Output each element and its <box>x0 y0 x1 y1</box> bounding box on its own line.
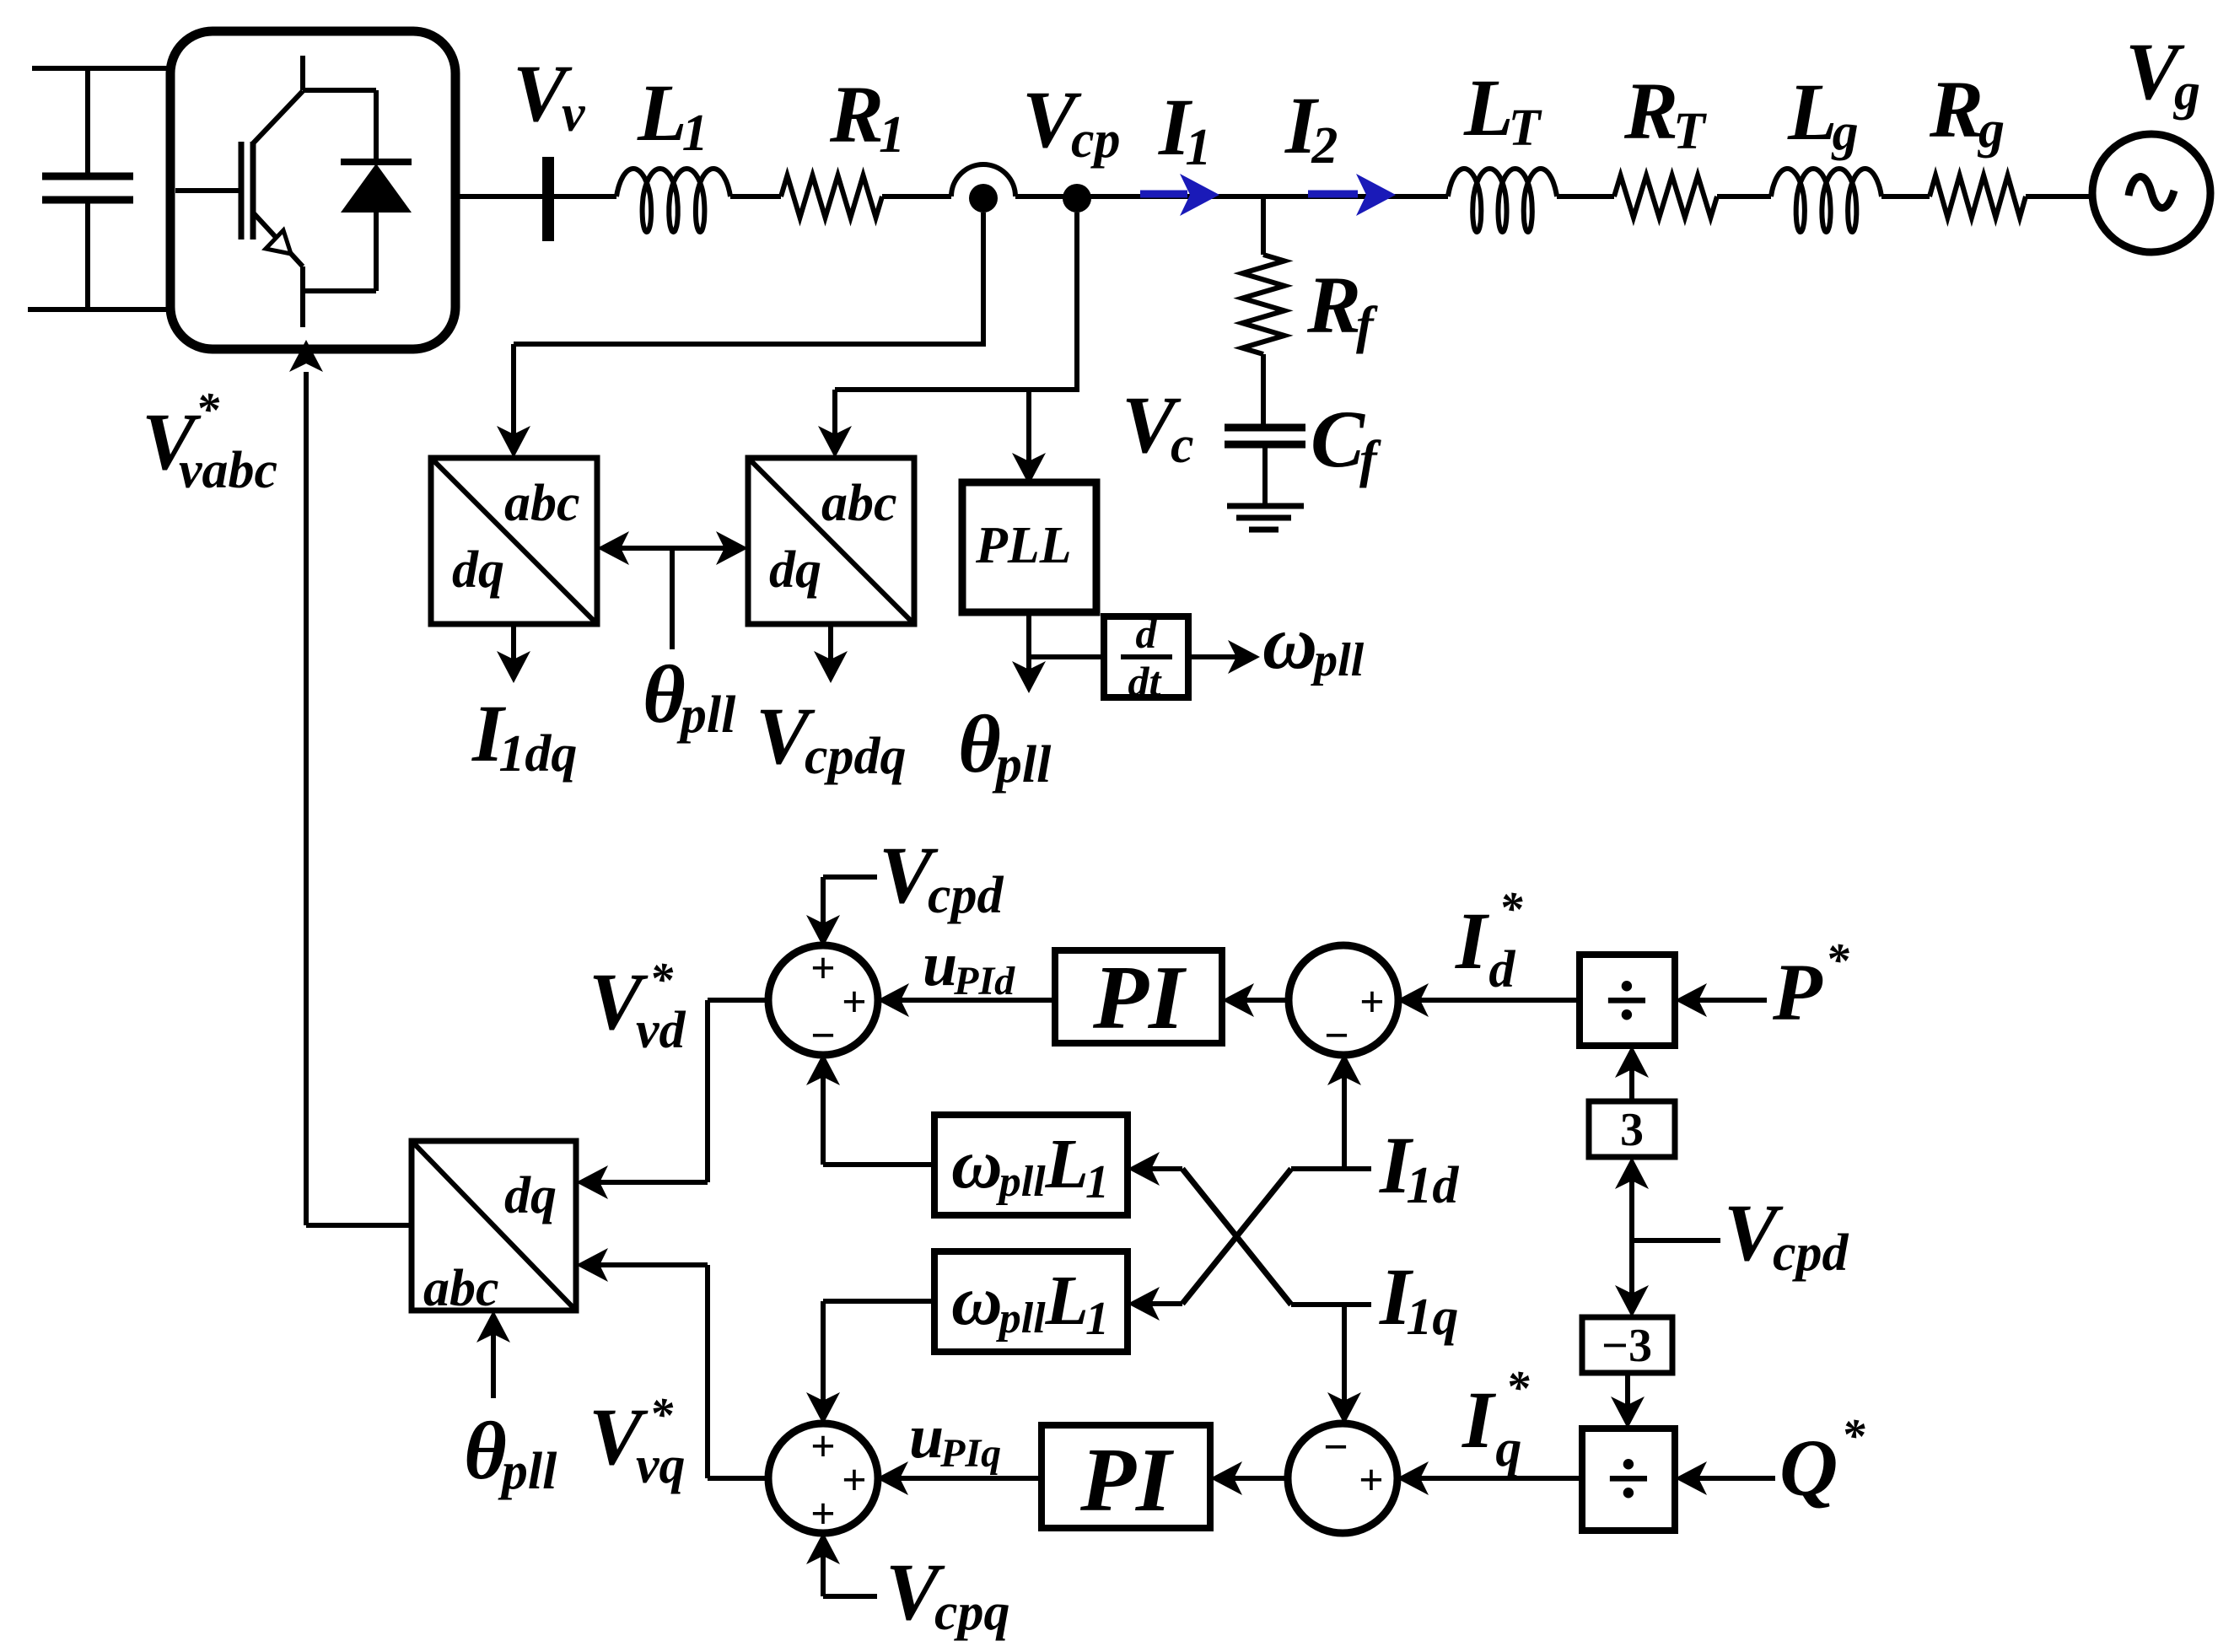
wire: converter ac output <box>455 194 616 199</box>
wire: theta_pll output arrow <box>1026 612 1031 683</box>
svg-text:÷: ÷ <box>1607 1434 1650 1523</box>
d/dt block <box>1104 616 1188 697</box>
converter block (VSC) <box>170 31 455 349</box>
wire: dc bus top <box>32 66 172 71</box>
node I1d <box>1291 1166 1371 1171</box>
wire: -3 to divider 2 <box>1625 1373 1630 1418</box>
svg-text:dq: dq <box>769 541 821 599</box>
wire: RT to Lg <box>1717 194 1771 199</box>
wire: P* into divider 1 <box>1686 998 1767 1003</box>
dc-link capacitor <box>85 68 90 176</box>
wire: Id* into S2 <box>1408 998 1580 1003</box>
svg-text:+: + <box>1359 1456 1384 1504</box>
svg-text:+: + <box>810 1423 836 1471</box>
inductor L1 <box>616 169 730 232</box>
PI block 1 <box>1055 950 1222 1043</box>
resistor Rg <box>1930 175 2026 218</box>
svg-text:PLL: PLL <box>975 517 1072 574</box>
resistor Rf <box>1242 255 1284 354</box>
diode D1 (freewheeling) <box>374 90 379 162</box>
wire: arrow into abc-dq block 1 <box>511 344 516 449</box>
wire: omega_pll arrow <box>1188 654 1250 659</box>
wire: I1q down into S4 <box>1342 1305 1347 1413</box>
inductor LT <box>1448 169 1557 232</box>
ground <box>1227 503 1304 509</box>
wire: Vcp measurement tap <box>1074 213 1079 390</box>
wire: V*vq into dq-abc <box>587 1262 708 1267</box>
wire: S1 output to V*vd <box>708 998 770 1003</box>
svg-text:+: + <box>810 944 836 993</box>
dq-abc block (modulation) <box>412 1141 576 1310</box>
wire: dc bus bottom <box>28 307 172 312</box>
current arrow I2 <box>1308 191 1358 198</box>
summing junction S4 (q current error) <box>1288 1423 1397 1533</box>
gain block 3 <box>1589 1101 1675 1157</box>
inductor Lg <box>1771 169 1881 232</box>
wire: I1dq output arrow <box>511 624 516 673</box>
wire: I1d up into S2 <box>1342 1064 1347 1169</box>
wire: S4 output to PI2 <box>1221 1476 1289 1481</box>
current arrow I1 <box>1140 191 1187 198</box>
resistor RT <box>1614 175 1717 218</box>
svg-text:3: 3 <box>1620 1104 1644 1156</box>
wire: S3 output to V*vq <box>708 1476 770 1481</box>
wire: Vcpdq output arrow <box>828 624 833 673</box>
wire: Iq* into S4 <box>1408 1476 1582 1481</box>
gain block -3 <box>1582 1317 1672 1373</box>
abc-dq block 2 (Vcp) <box>748 458 914 624</box>
svg-text:−3: −3 <box>1601 1320 1652 1372</box>
wire: LT to RT <box>1557 194 1614 199</box>
svg-text:dt: dt <box>1128 658 1163 705</box>
wire: PLL to d/dt <box>1029 654 1104 659</box>
svg-text:PI: PI <box>1092 948 1187 1048</box>
summing junction S1 (Vvd*) <box>768 945 878 1055</box>
wire: Vcpd into S1 <box>823 874 877 880</box>
svg-text:−: − <box>810 1012 836 1060</box>
wire: wL1 upper output into S1 <box>823 1162 934 1167</box>
svg-text:abc: abc <box>423 1260 499 1317</box>
divider block 1 (P* to Id*) <box>1580 955 1675 1046</box>
node I1q <box>1291 1302 1371 1307</box>
wire: I1d cross to lower wL1 <box>1182 1169 1291 1304</box>
svg-text:dq: dq <box>504 1167 557 1224</box>
wire: node Vcp to LT <box>1015 194 1448 199</box>
svg-text:−: − <box>1324 1012 1349 1060</box>
wire: PI1 output to S1 <box>888 998 1055 1003</box>
svg-text:V*vq: V*vq <box>589 1389 686 1494</box>
wire: PI2 output to S3 <box>887 1476 1042 1481</box>
PLL block <box>962 482 1096 612</box>
capacitor Cf <box>1225 424 1305 432</box>
node dot 1 (I1 measurement) <box>969 184 998 213</box>
wire: Q* into divider 2 <box>1686 1476 1775 1481</box>
wire: wL1 lower output into S3 <box>823 1299 934 1304</box>
svg-text:+: + <box>842 1456 867 1504</box>
wire: arrow into PLL <box>1026 390 1031 476</box>
wire: Rf to Cf <box>1261 354 1266 428</box>
wire: gain3 to divider1 <box>1629 1057 1634 1101</box>
wire: V*vabc feedback <box>306 1223 412 1228</box>
wire: Vcpd tap to gain blocks <box>1629 1168 1634 1240</box>
wire: R1 to sensor hop <box>882 194 951 199</box>
node: shunt branch junction <box>1261 196 1266 255</box>
wire: L1 to R1 <box>730 194 781 199</box>
svg-text:+: + <box>1359 978 1385 1026</box>
svg-text:+: + <box>842 978 867 1026</box>
transistor Q1 (IGBT) <box>300 56 305 90</box>
svg-text:abc: abc <box>821 475 897 532</box>
current sensor hop at node 1 <box>951 164 1015 196</box>
wire: Lg to Rg <box>1881 194 1930 199</box>
wire: arrow into abc-dq block 2 <box>832 390 837 449</box>
svg-text:V*vd: V*vd <box>589 954 686 1059</box>
wire: Rg to Vg <box>2026 194 2094 199</box>
wire: I1q cross to upper wL1 <box>1182 1169 1291 1305</box>
divider block 2 (Q* to Iq*) <box>1582 1429 1675 1531</box>
wire: theta_pll shared between blocks <box>606 546 739 551</box>
wire: theta_pll into dq-abc <box>491 1321 496 1398</box>
summing junction S3 (Vvq*) <box>768 1423 878 1533</box>
svg-text:÷: ÷ <box>1605 955 1649 1045</box>
wire: I1 measurement tap <box>981 213 986 344</box>
gain block wL1 lower <box>934 1251 1128 1352</box>
wire: S2 output to PI1 <box>1233 998 1289 1003</box>
resistor R1 <box>781 175 882 218</box>
gain block wL1 upper <box>934 1115 1128 1215</box>
node dot 2 (Vcp measurement) <box>1063 184 1091 213</box>
voltage marker Vv <box>542 157 554 241</box>
ac source Vg <box>2092 134 2210 252</box>
PI block 2 <box>1042 1425 1210 1528</box>
svg-text:d: d <box>1136 610 1158 657</box>
wire: Vcpq into S3 <box>821 1543 826 1596</box>
summing junction S2 (d current error) <box>1289 945 1398 1055</box>
svg-text:−: − <box>1323 1423 1348 1472</box>
svg-text:abc: abc <box>504 475 580 532</box>
svg-text:dq: dq <box>452 541 504 599</box>
wire: V*vd into dq-abc <box>587 1180 708 1185</box>
svg-text:+: + <box>810 1490 836 1538</box>
abc-dq block 1 (I1) <box>431 458 597 624</box>
svg-text:PI: PI <box>1079 1430 1175 1531</box>
